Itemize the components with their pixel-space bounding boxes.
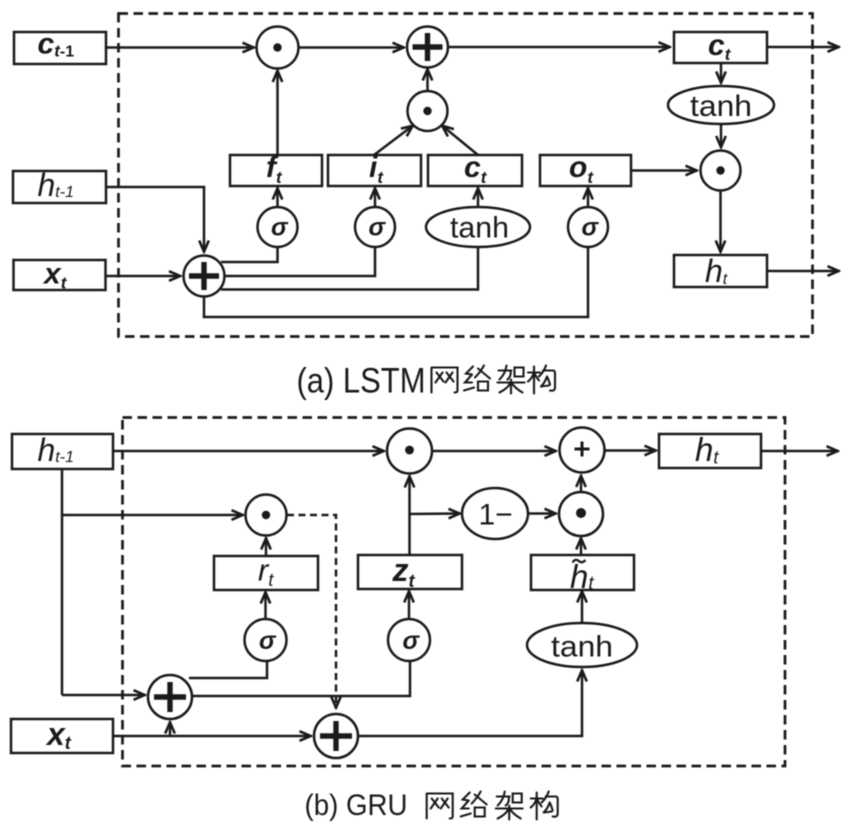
wire s2 to i_t [374,188,377,207]
wire h_{t-1} down branch [61,469,64,695]
wire mul1 to add1 [299,46,404,49]
svg-text:σ: σ [271,214,289,242]
wire i_t to mul2 [374,126,413,156]
svg-text:tanh: tanh [450,212,509,245]
wire c_t gate to mul2 [442,126,478,156]
wire sigma g1 to r_t [264,592,267,619]
wire s3 to o_t [587,188,590,207]
caption (a) [297,362,426,401]
wire z_t to mul g1 [408,476,411,555]
wire x_t branch to add g1 [169,722,172,736]
wire x_t to add g2 [113,735,311,738]
wire c_t output [767,46,839,49]
label c_t [708,29,732,64]
svg-text:tanh: tanh [551,631,613,664]
wire add2 to s2 [225,247,376,276]
label i_t [369,151,384,187]
label c_t gate [464,151,488,187]
wire add g1 to sigma g2 [192,661,410,696]
wire h_t output (a) [767,270,839,273]
label x_t (b) [45,716,72,753]
label f_t [266,151,283,187]
wire tanh right to mul3 [720,124,723,148]
wire c_{t-1} to mul1 [106,46,254,49]
box c_t [674,32,767,63]
multiply node g1 [387,429,432,474]
wire h_{t-1} branch to add g1 [62,694,145,697]
wire add g1 to sigma g1 [189,661,267,678]
box z_t [358,555,462,589]
wire add2 to s1 [221,247,278,262]
svg-text:σ: σ [582,214,600,242]
wire add g2 to tanh [358,670,582,736]
box o_t [540,155,631,186]
svg-text:tanh: tanh [690,90,752,123]
sigma node g1 [245,619,287,661]
box h_t (a) [674,255,767,287]
label c_{t-1} [38,28,75,61]
wire h_t output (b) [761,450,838,453]
sigma node s2 [355,207,395,247]
svg-text:σ: σ [369,214,387,242]
label x_t (a) [42,258,68,293]
label h_t (b) [695,431,719,468]
multiply node g3 [559,492,603,536]
wire one-minus to mul g3 [528,512,556,515]
box h_{t-1} (a) [13,171,106,203]
label z_t [392,552,416,591]
caption (a) CJK wang-luo-jia-gou [432,366,556,394]
svg-text:(b) GRU: (b) GRU [305,789,408,822]
wire r_t to mul g2 [265,538,268,556]
wire h_{t-1} to add2 [106,187,204,252]
box i_t [328,155,421,186]
wire branch to mul g2 [62,514,243,517]
wire tanh mid to c_t gate [477,188,480,207]
wire htilde_t to mul g3 [580,538,583,555]
box c_{t-1} [14,32,106,64]
box x_t (b) [11,719,113,753]
box r_t [214,556,318,590]
add node g (small plus) [560,428,605,473]
box f_t [230,155,322,186]
multiply node g2 [246,495,287,536]
label o_t [569,151,594,187]
wire add1 to box c_t [448,46,670,49]
box h_{t-1} (b) [12,434,113,469]
sigma node s3 [568,207,608,247]
box x_t (a) [14,260,106,290]
wire sigma g2 to z_t [408,591,411,619]
multiply node mul2 [408,91,448,131]
dashed cell border (b) [123,418,786,767]
label r_t [258,553,274,591]
svg-text:(a) LSTM: (a) LSTM [297,362,426,401]
wire tanh to htilde_t [581,591,584,623]
label h_{t-1} (a) [38,167,74,203]
one-minus node [462,488,528,539]
box htilde_t [531,555,634,590]
caption (b) CJK wang-luo-jia-gou [427,792,558,820]
svg-text:σ: σ [403,627,421,655]
wire s1 to f_t [276,188,279,207]
wire z_t branch to one-minus [410,512,461,515]
label h_t (a) [705,253,728,289]
add node add2 [184,256,225,297]
wire add2 to tanh mid [221,247,478,290]
sigma node g2 [388,619,430,661]
tanh node (b) [527,623,637,667]
wire mul g3 to add g [580,476,583,493]
wire add g to box h_t (b) [605,449,657,452]
svg-text:1−: 1− [479,499,513,532]
caption (b) [305,789,408,822]
wire mul2 to add1 [426,69,429,91]
box c_t gate [428,155,522,186]
sigma node s1 [258,207,298,247]
box h_t (b) [659,434,761,468]
label htilde_t [570,558,594,595]
wire mul g1 to add g [432,450,556,453]
wire o_t to mul3 [631,169,697,172]
tanh node mid [426,207,530,247]
wire mul3 to box h_t [719,191,722,252]
svg-text:σ: σ [259,627,277,655]
wire add2 to s3 [204,247,588,317]
wire x_t to add2 [106,275,181,278]
tanh node right [668,86,774,124]
add node add1 [407,27,448,68]
multiply node mul3 [701,151,741,191]
dashed cell border (a) [119,14,813,337]
label h_{t-1} (b) [38,432,74,468]
dashed wire mul g2 to add g2 [287,515,336,708]
wire f_t to mul1 [276,71,279,156]
wire h_{t-1} to mul g1 [113,450,384,453]
multiply node mul1 [257,27,299,69]
add node g1 (left plus) [148,675,192,719]
add node g2 [314,714,358,758]
wire c_t to tanh right [720,63,723,83]
